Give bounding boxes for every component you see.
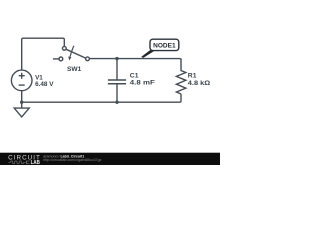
V1 plus sign	[19, 73, 25, 79]
wire top-left from V1 up and right to switch	[22, 38, 65, 70]
capacitor C1	[116, 59, 118, 80]
svg-text:LAB: LAB	[31, 160, 40, 165]
ground	[21, 102, 23, 108]
junction dot at ground node	[20, 101, 23, 104]
SW1 left throw stub	[53, 58, 59, 60]
voltage source V1	[11, 70, 32, 91]
svg-text:4.8 kΩ: 4.8 kΩ	[188, 80, 210, 87]
svg-text:NODE1: NODE1	[153, 42, 176, 49]
switch SW1	[53, 46, 89, 61]
svg-text:SW1: SW1	[67, 66, 82, 73]
svg-text:4.8 mF: 4.8 mF	[130, 79, 155, 86]
svg-text:6.48 V: 6.48 V	[35, 81, 54, 88]
junction dot at capacitor top	[115, 57, 118, 60]
SW1 arrowhead	[68, 57, 71, 61]
svg-text:R1: R1	[188, 72, 197, 79]
footer bar	[0, 153, 220, 165]
SW1 common terminal	[86, 57, 90, 61]
svg-text:C1: C1	[130, 72, 139, 79]
SW1 actuator arrow	[70, 46, 74, 57]
node NODE1 pointer	[141, 50, 155, 58]
bottom rail wire	[22, 94, 181, 102]
wire from switch common to right branch	[89, 59, 181, 60]
resistor R1	[176, 60, 185, 94]
SW1 left throw terminal	[59, 57, 63, 61]
junction dot at capacitor bottom	[115, 101, 118, 104]
SW1 top throw terminal	[62, 46, 66, 50]
wire V1 bottom to ground junction	[21, 90, 23, 102]
node NODE1 flag	[150, 39, 179, 50]
SW1 lever	[66, 49, 86, 58]
svg-text:http://circuitlab.com/c/gaed86: http://circuitlab.com/c/gaed86cc37gx	[43, 158, 101, 162]
footer logo waveform	[8, 161, 25, 164]
V1 minus sign	[19, 84, 25, 86]
